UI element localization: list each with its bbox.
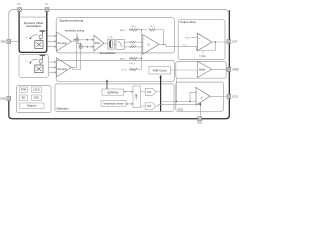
svg-text:VREF: VREF bbox=[232, 67, 239, 71]
low-pass filter block bbox=[116, 39, 124, 49]
op-amp U1 pre-amp (upper hall path) bbox=[57, 32, 72, 51]
demodulator (chopper) with label T_CL bbox=[100, 36, 116, 55]
svg-text:VREF Control: VREF Control bbox=[153, 69, 168, 72]
calibration block box bbox=[55, 84, 174, 112]
hall plate H2 (crossed square) bbox=[35, 65, 43, 73]
svg-text:Buffer: Buffer bbox=[199, 68, 206, 71]
svg-text:VSS: VSS bbox=[197, 121, 202, 125]
wires EEPROM-Logic (bidirectional arrow) and Temperature sensor-Logic arrow bbox=[124, 91, 133, 105]
svg-text:Fx_C: Fx_C bbox=[122, 70, 128, 72]
pin OCD (right) bbox=[227, 95, 231, 99]
VREF buffer block box bbox=[176, 62, 226, 79]
svg-text:Regmon: Regmon bbox=[27, 105, 37, 108]
chip outline box bbox=[9, 10, 229, 119]
svg-text:UVLO: UVLO bbox=[33, 89, 40, 92]
signal processing block box (upper) bbox=[56, 18, 174, 53]
wires filter outputs through resistors R_x to output amp A bbox=[124, 42, 142, 47]
vertical trim bus wire bbox=[140, 30, 142, 70]
supply block box (POR UVLO BG OSC Regmon) bbox=[17, 86, 52, 113]
svg-text:EEPROM: EEPROM bbox=[107, 91, 118, 94]
junction dot on rail 2 bbox=[87, 46, 88, 47]
wire PGA output to demodulator bbox=[104, 42, 108, 44]
wire U3 output to OUT pin with junction dot bbox=[212, 41, 228, 44]
resistor on row B bbox=[131, 68, 137, 70]
wires into comparator U4 with junction dots bbox=[161, 78, 196, 101]
svg-text:cancellation: cancellation bbox=[26, 24, 42, 28]
wires hall H1 outputs to pre-amp U1 inputs bbox=[48, 35, 57, 37]
pin VSS (bottom) bbox=[198, 117, 202, 121]
wire row A to bus bbox=[137, 58, 141, 60]
pins (crossed-square symbols) bbox=[7, 8, 231, 121]
wire row B to bus bbox=[137, 69, 141, 71]
arrowheads into PGA bbox=[92, 39, 94, 48]
svg-text:PGA: PGA bbox=[95, 42, 101, 45]
svg-text:T_CL: T_CL bbox=[107, 36, 113, 38]
svg-text:POR: POR bbox=[21, 89, 26, 92]
wire chopper to hall plate H2 bbox=[39, 63, 41, 65]
pin VREF (right) bbox=[227, 68, 231, 72]
arrow wire calibration to signal processing bbox=[106, 81, 108, 89]
DAC D/A 2 bbox=[145, 103, 156, 110]
chopper (spinning current) circle of H2 bbox=[39, 59, 43, 63]
wire T-bar to chopper circle H1 bbox=[41, 31, 43, 35]
pin VDD (left) bbox=[7, 40, 11, 44]
block VREF Control bbox=[149, 66, 170, 74]
primary current U-path IP+ to IP- forming Dynamic offset cancellation box bbox=[19, 12, 47, 53]
svg-text:GND: GND bbox=[0, 96, 6, 100]
svg-text:OSC: OSC bbox=[34, 97, 39, 100]
svg-text:OCD: OCD bbox=[232, 94, 238, 98]
OCD block box bbox=[176, 82, 224, 111]
wire top row to bus bbox=[137, 29, 147, 31]
summing node S1 (circle with plus) bbox=[75, 38, 78, 41]
net circle on rail 2 bbox=[130, 46, 132, 48]
svg-text:Pre-amp: Pre-amp bbox=[58, 68, 68, 71]
svg-text:V_R: V_R bbox=[185, 37, 190, 39]
wire U1 output to summing node S1 bbox=[72, 40, 76, 42]
wires Logic to DACs bbox=[141, 91, 146, 93]
wires U2 outputs rising to summing nodes bbox=[72, 42, 81, 70]
net circle BW_C row A bbox=[130, 58, 132, 60]
thick trim bus wire with arrow into VREF Control bbox=[160, 77, 162, 112]
wire Buffer output to VREF pin bbox=[212, 68, 229, 70]
net circle BW_C top row bbox=[130, 29, 132, 31]
svg-text:VDD: VDD bbox=[1, 39, 7, 43]
chopper (spinning current) circle of H1 bbox=[39, 35, 43, 39]
svg-text:90: 90 bbox=[26, 61, 28, 63]
link wire with arrow into node S2 bbox=[77, 43, 81, 44]
svg-text:i·R_x: i·R_x bbox=[131, 26, 137, 28]
signal processing block box (lower) bbox=[56, 60, 174, 81]
svg-text:BW_C: BW_C bbox=[120, 30, 127, 32]
op-amp U2 pre-amp (lower hall path) bbox=[57, 58, 72, 77]
svg-text:OUT: OUT bbox=[232, 39, 238, 43]
svg-text:IP+: IP+ bbox=[17, 3, 21, 6]
pin name labels bbox=[0, 3, 239, 125]
feedback loop wire of U3 with V_Ref stub bbox=[197, 42, 216, 51]
wire net V_R into U3 plus input bbox=[191, 36, 198, 38]
arrowheads into pre-amp U2 bbox=[54, 61, 56, 74]
resistor i-R_x (top row input) bbox=[131, 29, 138, 31]
DAC D/A 1 bbox=[145, 88, 156, 95]
junction dot at bus/row A bbox=[141, 58, 142, 59]
svg-text:Logic: Logic bbox=[135, 93, 138, 100]
resistor on row A bbox=[131, 57, 137, 59]
net circle Fx_C row B bbox=[130, 69, 132, 71]
bias tap T-bar of hall element H1 bbox=[40, 30, 46, 32]
trim row: net BW_C, resistor i-R_x, node bus, feedback resistor R_x and loop bbox=[130, 29, 164, 70]
wire VDD pin into chip bbox=[10, 41, 20, 43]
comparator U4 (over-current detection) bbox=[196, 87, 210, 105]
feedback wire to output node bbox=[156, 29, 164, 31]
svg-text:BG: BG bbox=[22, 97, 26, 100]
hall plate H1 (crossed square) bbox=[35, 41, 43, 49]
svg-text:Output driver: Output driver bbox=[180, 20, 196, 24]
svg-text:IP-: IP- bbox=[45, 3, 48, 6]
svg-text:Temperature sensor: Temperature sensor bbox=[103, 103, 124, 106]
svg-text:A: A bbox=[147, 42, 150, 46]
wire U4 output to OCD pin bbox=[210, 95, 228, 97]
net circle on rail 1 bbox=[130, 41, 132, 43]
resistor R_x on rail 1 bbox=[131, 41, 135, 43]
wire T-bar to chopper circle H2 bbox=[41, 55, 43, 59]
summing node S2 (circle with plus) bbox=[79, 45, 82, 48]
threshold wire from VSS/DAC into U4 with arrow bbox=[199, 103, 201, 118]
amplifier Buffer bbox=[198, 61, 212, 77]
svg-text:Calibration: Calibration bbox=[56, 106, 69, 110]
svg-text:D/A: D/A bbox=[147, 91, 151, 94]
tuning stub wire with arrow into node S1 bbox=[76, 33, 78, 37]
junction dot on rail 1 bbox=[87, 39, 88, 40]
wire chopper to hall plate H1 bbox=[39, 39, 41, 41]
wire op-amp A output to output driver bbox=[159, 44, 197, 46]
svg-text:sensitivity tuning: sensitivity tuning bbox=[65, 29, 85, 33]
op-amp A (signal processing output amplifier) bbox=[143, 35, 159, 55]
pin GND (left) bbox=[7, 97, 11, 101]
block Temperature sensor bbox=[101, 100, 126, 106]
junction dot at bus/top row bbox=[141, 29, 142, 30]
wire rails S1,S2 to PGA inputs bbox=[79, 40, 94, 47]
junction dot at feedback/output wire bbox=[163, 44, 164, 45]
trim rows: nets BW_C and Fx_C with resistors into bus (label 4-R_x) bbox=[130, 57, 142, 70]
svg-text:4·R_x: 4·R_x bbox=[129, 63, 136, 65]
svg-text:90: 90 bbox=[26, 37, 28, 39]
svg-text:V_Ref: V_Ref bbox=[199, 56, 206, 58]
bias tap T-bar of hall element H2 bbox=[40, 54, 46, 56]
pin IP+ (top left) bbox=[18, 8, 22, 12]
svg-text:OCD: OCD bbox=[178, 108, 184, 111]
wires hall H2 outputs to pre-amp U2 inputs bbox=[49, 61, 57, 63]
svg-text:Signal processing: Signal processing bbox=[60, 18, 84, 22]
spinning phase arrow of H1 bbox=[31, 35, 38, 38]
pin OUT (right) bbox=[227, 40, 231, 44]
op-amp U3 output driver bbox=[197, 33, 212, 51]
block Logic bbox=[133, 86, 141, 108]
svg-text:demodulation: demodulation bbox=[100, 51, 116, 55]
pin IP- (top) bbox=[45, 8, 49, 12]
resistor R_x (feedback) bbox=[149, 29, 155, 31]
wire VREF Control to Buffer bbox=[170, 69, 197, 71]
svg-text:BW_C: BW_C bbox=[120, 59, 127, 61]
wire demodulator to low-pass filter bbox=[114, 43, 116, 45]
hall element H2 enclosure box bbox=[19, 55, 49, 78]
output driver block box bbox=[178, 20, 225, 60]
resistor R_x on rail 2 bbox=[131, 46, 135, 48]
block EEPROM bbox=[102, 89, 124, 95]
ground net thick rail (GND to VSS along bottom and right edges) bbox=[9, 10, 230, 118]
svg-text:Pre-amp: Pre-amp bbox=[58, 42, 68, 45]
amplifier PGA bbox=[94, 35, 104, 51]
arrowheads into pre-amp U1 bbox=[54, 35, 56, 48]
svg-text:D/A: D/A bbox=[147, 105, 151, 108]
spinning phase arrow of H2 bbox=[31, 59, 38, 62]
